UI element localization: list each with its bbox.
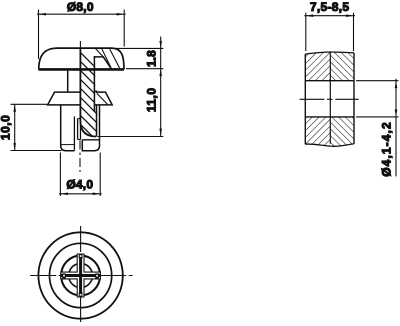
svg-text:11,0: 11,0 bbox=[144, 87, 158, 112]
svg-text:Ø4,1-4,2: Ø4,1-4,2 bbox=[380, 121, 394, 177]
svg-text:Ø8,0: Ø8,0 bbox=[67, 0, 94, 14]
svg-text:10,0: 10,0 bbox=[0, 115, 13, 140]
svg-text:1.8: 1.8 bbox=[144, 50, 158, 67]
svg-text:7,5-8,5: 7,5-8,5 bbox=[310, 0, 349, 14]
svg-text:Ø4,0: Ø4,0 bbox=[66, 177, 93, 191]
